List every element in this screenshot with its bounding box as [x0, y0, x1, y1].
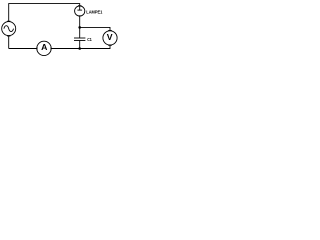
AC source V1 top terminal tick: [7, 20, 10, 22]
lamp top terminal tick: [78, 5, 82, 7]
wire lamp bottom to node: [79, 16, 81, 27]
svg-text:A: A: [41, 42, 48, 52]
AC source V1 bottom terminal tick: [7, 35, 10, 37]
voltmeter top terminal tick: [108, 30, 112, 32]
wire top from source to lamp: [9, 4, 80, 22]
ammeter left terminal tick: [36, 47, 38, 50]
wire bottom right to voltmeter corner: [51, 45, 110, 49]
node junction dot upper: [78, 26, 81, 29]
ammeter A circle: [37, 41, 51, 55]
wire source bottom stub: [8, 36, 10, 49]
capacitor C1 top stub: [79, 27, 81, 38]
wire bottom left to ammeter: [9, 48, 37, 50]
ammeter right terminal tick: [50, 47, 52, 50]
AC source V1 circle: [2, 22, 16, 36]
voltmeter bottom terminal tick: [108, 44, 112, 46]
capacitor C1 bottom stub: [79, 41, 81, 49]
node junction dot lower: [78, 47, 81, 50]
wire mid node to voltmeter: [80, 27, 110, 30]
svg-text:LAMPE1: LAMPE1: [86, 9, 102, 14]
voltmeter V circle: [103, 31, 117, 45]
svg-text:V: V: [107, 32, 113, 42]
capacitor C1 top plate: [74, 37, 85, 39]
AC source sine wave: [4, 26, 14, 32]
lamp LAMPE1 circle: [75, 6, 85, 16]
lamp inner stem: [79, 6, 81, 10]
capacitor C1 bottom plate: [74, 40, 85, 42]
lamp inner bar: [77, 9, 82, 11]
lamp bottom terminal tick: [78, 15, 82, 17]
svg-text:C1: C1: [87, 37, 92, 42]
